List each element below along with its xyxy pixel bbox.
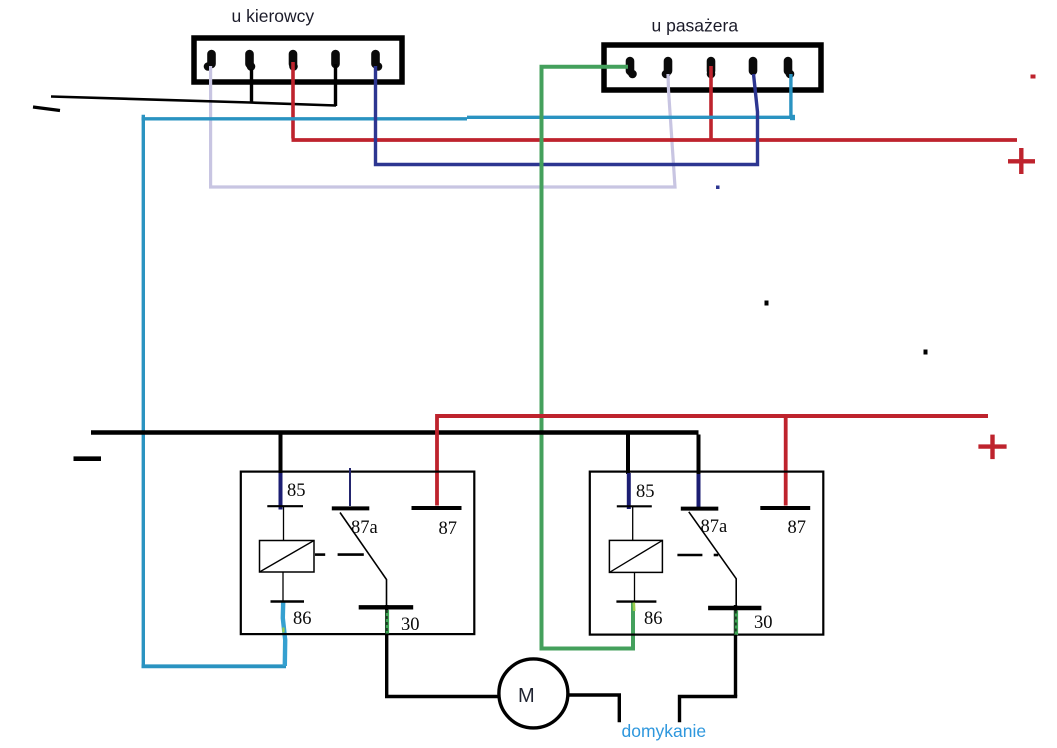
K2 30 green dashes	[734, 611, 738, 636]
wire red top rail	[292, 138, 1018, 142]
wire black freehand ground line from left to J1 pin4	[51, 97, 336, 106]
K1 terminal 30 bar	[359, 605, 414, 609]
wire black K2 30 elbow stub	[680, 697, 738, 723]
K1 coil link 85	[283, 507, 285, 541]
wire black ground bus	[91, 430, 699, 434]
K2 terminal 86 bar	[616, 600, 656, 602]
wire navy stub K2 87a	[697, 474, 701, 507]
wire red drop to K1 87	[435, 414, 439, 506]
K1 switch arm	[340, 513, 387, 607]
wire navy J1 pin5 to J2 pin4	[376, 66, 758, 165]
plus symbol lower right	[978, 435, 1006, 460]
wire cyan top run left segment	[142, 117, 468, 120]
K2 switch arm	[689, 512, 736, 605]
J2 pin 2	[662, 61, 671, 78]
J2 pin 1	[628, 61, 637, 78]
K1 terminal 87 bar	[412, 506, 462, 510]
K1 87a stub	[349, 468, 351, 506]
K2 coil	[609, 540, 662, 572]
wire green J2 pin1 to K2 86	[542, 67, 634, 649]
relay K2 box	[590, 472, 824, 635]
K1 30 wire down	[385, 605, 388, 697]
K1 coil dashes	[315, 553, 325, 556]
K1 30 green dashes	[385, 610, 389, 634]
wire red J2 pin3 drop	[709, 66, 713, 140]
J2 pin 5	[786, 61, 795, 78]
K2 terminal 87a bar	[681, 507, 719, 511]
K2 coil link 85	[632, 506, 634, 540]
svg-text:87: 87	[788, 518, 807, 538]
wire cyan top run right segment	[467, 116, 793, 119]
wire black bus elbow to K2 87a	[697, 435, 701, 476]
svg-text:86: 86	[644, 609, 663, 629]
J1 pin 3	[289, 54, 298, 71]
J1 pin 1	[204, 54, 213, 71]
K2 terminal 85 bar	[617, 505, 652, 507]
svg-text:85: 85	[287, 481, 306, 501]
wire red drop to K2 87	[784, 416, 788, 506]
J1 pin 5	[374, 54, 383, 71]
K1 terminal 87a bar	[332, 506, 370, 510]
K1 terminal 86 bar	[271, 600, 305, 602]
wire cyan left vertical	[142, 115, 145, 666]
svg-text:M: M	[518, 685, 535, 707]
J2 pin 3	[707, 61, 716, 78]
wire black motor right stub	[568, 695, 619, 722]
wire navy stub K2 85	[627, 473, 631, 509]
wire black bus drop to K2 85	[626, 432, 630, 474]
K2 terminal 30 bar	[708, 606, 761, 610]
black dot 2	[924, 350, 928, 355]
wire cyan bottom run	[142, 664, 287, 668]
K1 coil link 86	[282, 572, 284, 602]
svg-text:30: 30	[754, 613, 773, 633]
K2 coil link 86	[634, 572, 636, 601]
svg-text:86: 86	[293, 609, 312, 629]
wire red J1 pin3 to + rail	[291, 62, 295, 139]
wire black J1 pin2 drop	[250, 69, 253, 104]
wire cyan J2 pin5 drop	[789, 74, 792, 117]
K2 terminal 87 bar	[760, 506, 810, 510]
svg-text:u pasażera: u pasażera	[652, 16, 739, 36]
svg-text:87: 87	[439, 519, 458, 539]
black dot 1	[765, 301, 769, 306]
wire black bus drop to K1 85	[279, 432, 283, 474]
wire lavender J1 pin1 to J2 pin2	[211, 66, 675, 187]
K1 terminal 85 bar	[267, 505, 303, 507]
wire black motor left	[385, 695, 499, 698]
J2 pin 4	[749, 61, 758, 71]
wire black J1 pin4 drop	[334, 64, 337, 106]
motor M circle	[499, 659, 568, 728]
K1 coil	[260, 541, 315, 573]
navy dot	[716, 186, 720, 190]
J1 pin 2	[247, 54, 256, 71]
plus symbol top right	[1008, 148, 1035, 174]
connector J1 (driver) body	[194, 38, 402, 82]
K2 30 wire down	[734, 605, 737, 697]
connector J2 (passenger) body	[604, 45, 821, 90]
minus dash left	[74, 456, 102, 461]
J1 pin 4	[331, 54, 340, 64]
wire navy stub K1 85	[279, 473, 283, 510]
black dash stroke lower-left	[33, 107, 60, 111]
svg-text:domykanie: domykanie	[622, 721, 707, 741]
K2 coil dashes	[677, 554, 702, 557]
wire red lower rail	[437, 414, 988, 418]
svg-text:u kierowcy: u kierowcy	[232, 6, 315, 26]
svg-text:30: 30	[401, 615, 420, 635]
wire light blue to K1 86	[283, 602, 285, 666]
relay K1 box	[241, 472, 474, 634]
svg-text:85: 85	[636, 482, 655, 502]
red dot top right	[1031, 75, 1036, 79]
